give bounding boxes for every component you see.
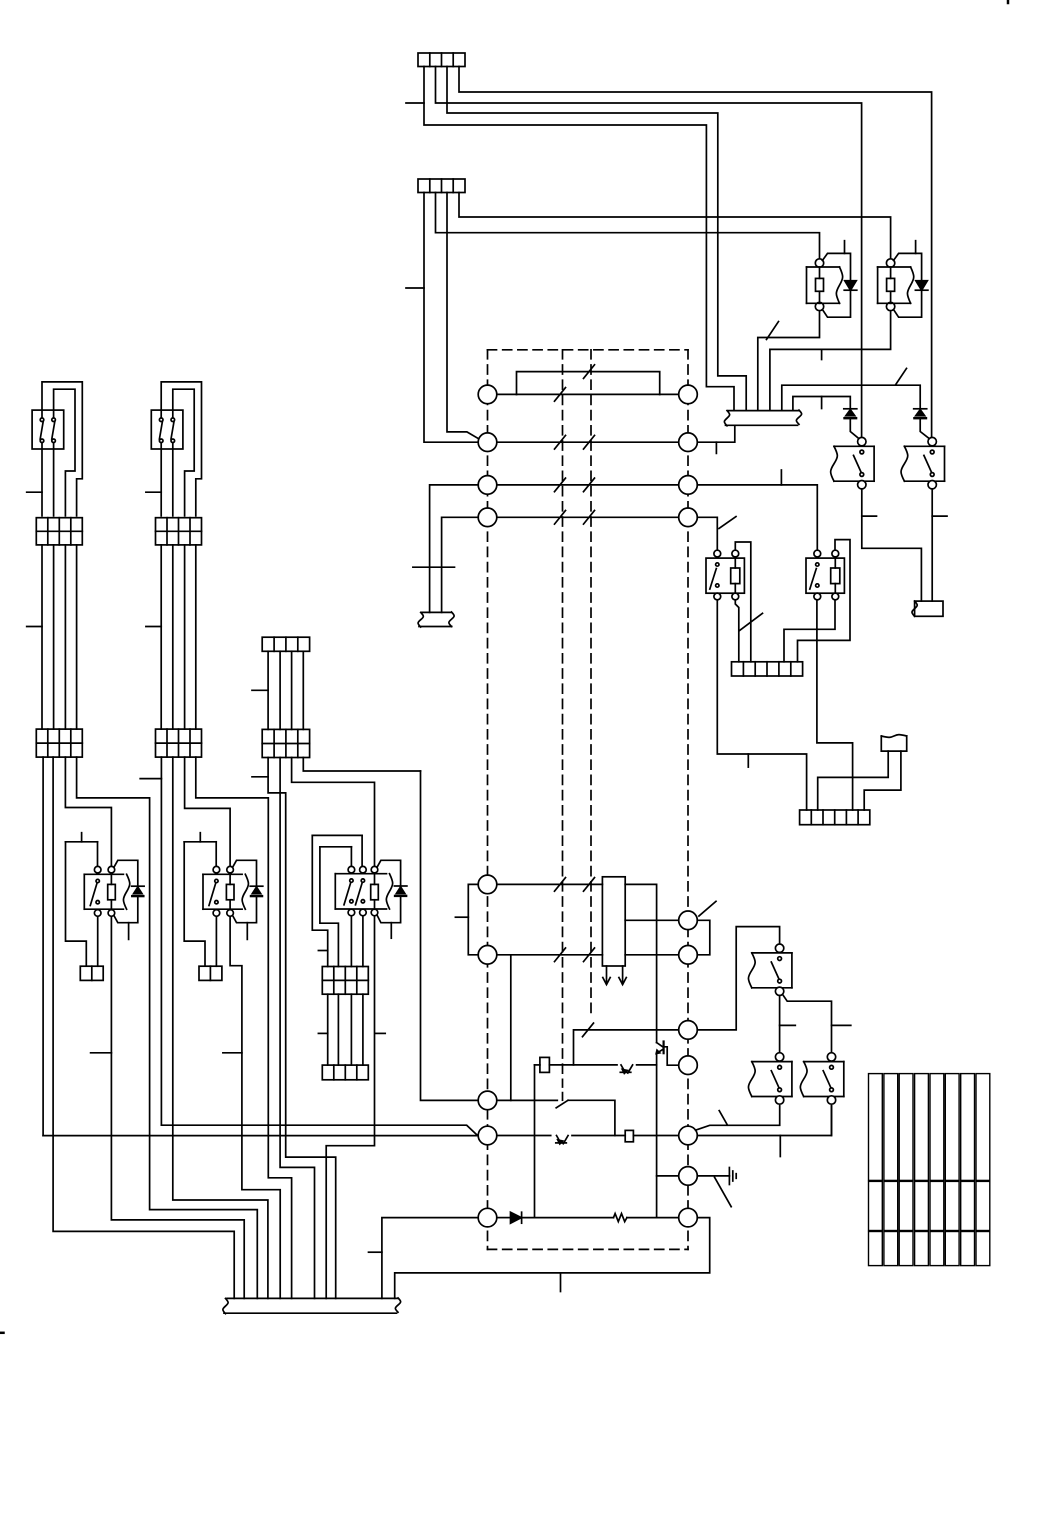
tick at left edge xyxy=(0,1332,4,1335)
pin L2 xyxy=(478,433,497,452)
wire g3 row mid xyxy=(522,1217,614,1219)
wire K to pin e2 xyxy=(625,954,679,956)
wire f4 to emitter line xyxy=(657,1175,679,1177)
tick below bottom wire xyxy=(560,1273,562,1292)
pin g3 xyxy=(478,1208,497,1227)
wire RB1 coil down xyxy=(735,600,739,662)
dashed box outline xyxy=(488,349,689,351)
wire f4 to ground xyxy=(697,1175,729,1177)
connector CN2 (4-pin) xyxy=(418,179,465,193)
tick on pin R3 wire xyxy=(780,470,782,485)
ground symbol xyxy=(728,1168,730,1185)
diode of U2 xyxy=(250,885,263,887)
wire CN2 pin3 to pin L2 (kink) xyxy=(447,193,481,441)
tick on CN2 pin1 wire xyxy=(406,287,424,289)
wire pin f1 right to switch S5 xyxy=(697,927,779,1030)
pin d2 xyxy=(478,946,497,965)
tick below f3 wire xyxy=(779,1136,781,1157)
label leader near K1 xyxy=(767,322,779,340)
tick on D4 wire xyxy=(821,349,823,359)
bottom harness strip xyxy=(227,1297,398,1299)
switch S5 xyxy=(775,944,783,952)
wire row3 xyxy=(497,484,679,486)
wire CN6 to HS3 b xyxy=(864,751,901,810)
bracket pins d1-d2 xyxy=(468,884,478,954)
switch S6 xyxy=(775,1053,783,1061)
component box K xyxy=(602,877,625,966)
wire W1-4 to bus xyxy=(77,757,258,1298)
wire S3 to CN5 xyxy=(862,489,922,601)
label leader at ground xyxy=(715,1177,732,1207)
wire W3-1 to bus xyxy=(268,758,336,1299)
wire pin d1 to box K xyxy=(497,883,603,885)
wire CN2 pin4 to relay K2 xyxy=(459,193,891,260)
tick f1 wire xyxy=(583,1023,594,1037)
wire g1 to switch SW1 xyxy=(497,1099,558,1101)
wire RB2 coil down xyxy=(784,600,835,662)
wire D4 to switch S4 xyxy=(920,419,929,439)
wire W2-1 to pin g2 xyxy=(160,757,162,1125)
connector CN5 xyxy=(915,601,943,616)
wire W2-4 to bus xyxy=(196,757,292,1298)
ticks d2 wire xyxy=(555,948,566,962)
label leader at e1 xyxy=(699,901,716,916)
wire g3 row right xyxy=(627,1217,679,1219)
wire W2-3 to relay U2 xyxy=(185,757,231,866)
wire W3-4 to pin g1 xyxy=(303,758,420,772)
pin R4 xyxy=(679,508,698,527)
tick on g3 drop xyxy=(369,1251,382,1253)
wire K to collector line xyxy=(625,884,656,1042)
wire f3 to switch S6 xyxy=(696,1106,780,1131)
tick near W2 xyxy=(140,778,161,780)
connector CN6 xyxy=(881,735,906,738)
wire H2 right xyxy=(637,1064,657,1066)
wire row1 jumper rect xyxy=(497,393,517,395)
pin f1 xyxy=(679,1021,698,1040)
relay RB2 xyxy=(814,550,821,557)
wires U3 block to lower xyxy=(327,994,329,1065)
connector CN3 xyxy=(262,637,309,651)
wire W1-1 to pin g2 xyxy=(42,757,44,1136)
wire pin R4 to relay RB1 xyxy=(697,517,717,549)
wire CN2 pin2 to relay K1 xyxy=(436,193,820,260)
relay K2 coil xyxy=(886,259,894,267)
tick on RB1 down wire xyxy=(747,754,749,767)
pin R1 xyxy=(679,385,698,404)
relay RB1 xyxy=(714,550,721,557)
relay K1 coil xyxy=(815,259,823,267)
tick row1 xyxy=(555,388,566,402)
pin g1 xyxy=(478,1091,497,1110)
ticks row2 xyxy=(555,435,566,449)
wire H2 left drop xyxy=(534,1065,536,1218)
block of U3 lower xyxy=(322,1065,368,1080)
tick near U2 return xyxy=(223,1052,242,1054)
tick left of U3 cable xyxy=(318,1032,327,1034)
tick right of S5a xyxy=(780,1024,796,1026)
wire CN2 pin1 to pin L2 xyxy=(424,193,478,443)
diode D4 xyxy=(914,408,927,410)
wire K to pin e1 xyxy=(625,919,679,921)
inner dashed line A xyxy=(562,350,564,1087)
wire S5 to S7 xyxy=(783,995,832,1054)
wire RB1 coil up xyxy=(735,542,751,662)
wire pin d2 to box K xyxy=(497,954,603,956)
harness cable W3 wires xyxy=(267,651,269,729)
wire W1-2 to bus xyxy=(53,757,234,1298)
wire HS1 to diode D4 xyxy=(782,385,920,410)
tick left of U3 xyxy=(318,950,327,952)
wire g2 right xyxy=(497,1135,551,1137)
relay unit U3 xyxy=(312,834,362,836)
wire CN1 pin3 to harness HS1 xyxy=(447,67,746,411)
wire B to pin g2 (kink) xyxy=(161,1125,477,1135)
diode of U1 xyxy=(132,885,145,887)
ticks d1 wire xyxy=(555,878,566,892)
wire SW1 to junction xyxy=(568,1100,615,1135)
tick right of U3 cable xyxy=(375,1032,385,1034)
wire f3 to switch S7 xyxy=(697,1106,831,1136)
dot at top edge xyxy=(1007,0,1010,3)
V-notch on g2 wire xyxy=(557,1136,561,1144)
connector of U1 xyxy=(80,966,103,980)
pin d1 xyxy=(478,875,497,894)
wire RB2 coil up xyxy=(798,540,851,662)
wire U1 coil return xyxy=(111,916,244,1298)
wire U2 coil return xyxy=(230,916,280,1298)
wire U3 coil return to bus xyxy=(326,916,374,1299)
diode of K2 xyxy=(916,281,928,291)
tick right of S3 xyxy=(862,515,877,517)
pin R2 xyxy=(679,433,698,452)
resistor R1 xyxy=(614,1214,627,1222)
arrows below box K xyxy=(606,966,608,984)
tick right of S5b xyxy=(832,1024,851,1026)
wire pin R3 to relay RB2 xyxy=(697,485,817,549)
harness strip HS2 xyxy=(732,662,803,676)
pin g2 xyxy=(478,1126,497,1145)
block of U3 upper xyxy=(322,967,368,995)
tick near W3 xyxy=(252,689,268,691)
wire pin L4 to CN4 xyxy=(442,517,479,612)
diode of U3 xyxy=(394,885,407,887)
tick on CN4 wires xyxy=(413,566,455,568)
transistor Q1 xyxy=(657,1043,663,1047)
pin f4 xyxy=(679,1167,698,1186)
switch S3 xyxy=(858,437,866,445)
harness cable W1 xyxy=(32,410,64,449)
label leader at pin R4 xyxy=(719,517,736,529)
wire pin L3 to CN4 xyxy=(430,485,479,613)
harness connector HS1 xyxy=(729,410,799,412)
wire CN1 pin1 to harness HS1 xyxy=(424,67,734,411)
connector of U2 xyxy=(199,966,222,980)
pin e2 xyxy=(679,946,698,965)
inner dashed line B xyxy=(590,350,592,1017)
wire pin f1 left xyxy=(574,1030,679,1065)
wire W2-2 to bus xyxy=(173,757,268,1298)
switch S4 xyxy=(928,437,936,445)
pin e1 xyxy=(679,911,698,930)
pin f3 xyxy=(679,1126,698,1145)
diode of K1 xyxy=(845,281,857,291)
wire W3-2 to bus xyxy=(280,758,314,1299)
tick on pin R2 wire xyxy=(715,442,717,453)
wire S5 to S6 xyxy=(779,996,781,1054)
harness cable W2 xyxy=(151,410,183,449)
wire HS1 bottom to pin R2 xyxy=(697,425,735,442)
tick on CN1 pin1 wire xyxy=(406,102,424,104)
wire row2 xyxy=(497,441,679,443)
wire K1 to harness HS1 xyxy=(758,311,820,411)
connector CN4 xyxy=(422,611,452,613)
wire CN6 to HS3 a xyxy=(818,751,889,810)
label leader near RB1 xyxy=(740,613,763,630)
wire pin g1 left xyxy=(421,771,479,1100)
switch S7 xyxy=(827,1053,835,1061)
tick on d1-d2 bracket xyxy=(455,916,468,918)
wire f5 to bottom strip xyxy=(395,1218,710,1299)
harness strip HS3 xyxy=(800,810,870,825)
wire RB1 switch down xyxy=(717,600,806,810)
bracket pins e1-e2 xyxy=(697,920,710,955)
label leader near D4 wire xyxy=(896,368,907,384)
tick row1 rect xyxy=(584,365,595,379)
terminal table xyxy=(869,1074,883,1181)
pin L1 xyxy=(478,385,497,404)
ticks row3 xyxy=(555,478,566,492)
tick below W3 xyxy=(252,776,268,778)
pin R3 xyxy=(679,476,698,495)
relay unit U1 xyxy=(81,833,83,842)
wire H2 resistor F2 xyxy=(535,1064,540,1066)
wire g2 to resistor F3 xyxy=(572,1135,625,1137)
wire D3 to switch S3 xyxy=(850,419,859,439)
emitter line Q1 xyxy=(656,1053,658,1217)
pin f2 xyxy=(679,1056,698,1075)
wire S7 down xyxy=(831,1106,833,1136)
connector CN1 (4-pin) xyxy=(418,53,465,67)
switch SW1 xyxy=(562,1093,564,1101)
wire RB2 switch down xyxy=(817,600,853,810)
wire K2 to harness HS1 xyxy=(770,311,891,411)
label leader at f3 xyxy=(719,1111,727,1125)
wire HS1 to diode D3 xyxy=(793,397,850,411)
harness W3 block xyxy=(262,729,309,757)
pin f5 xyxy=(679,1208,698,1227)
tick near U1 return xyxy=(91,1052,112,1054)
V-notch on H2 xyxy=(621,1065,625,1073)
wire row4 xyxy=(497,516,679,518)
ticks row4 xyxy=(555,511,566,525)
wire pin g3 left xyxy=(382,1218,478,1299)
pin L4 xyxy=(478,508,497,527)
tick on D3 wire xyxy=(821,397,823,409)
wire W1-3 to relay U1 xyxy=(65,757,111,866)
wire S4 to CN5 xyxy=(931,489,933,601)
relay unit U2 xyxy=(199,833,201,842)
wire CN1 pin2 to node J2 xyxy=(436,67,862,438)
diode D3 xyxy=(844,408,857,410)
wire A to pin g2 xyxy=(43,1135,478,1137)
diode D5 xyxy=(497,1217,511,1219)
tick right of S4 xyxy=(932,515,947,517)
wire W3-3 to relay U3 xyxy=(292,758,375,867)
wire CN1 pin4 to node J4 xyxy=(459,67,932,438)
pin L3 xyxy=(478,476,497,495)
junction tap d2-g1 xyxy=(510,955,512,1101)
